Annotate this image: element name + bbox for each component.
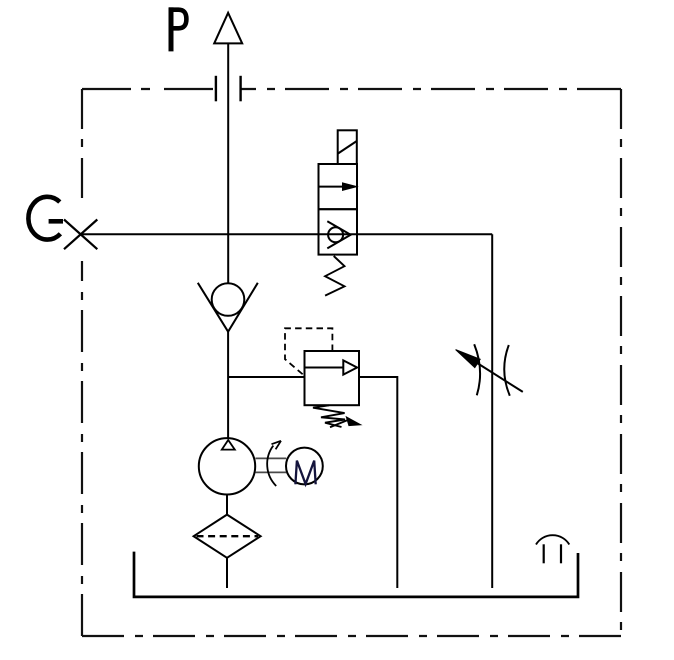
relief valve spring <box>313 405 345 427</box>
throttle valve arc right <box>504 345 510 396</box>
breather tick left <box>543 544 545 563</box>
relief valve flow arrow <box>305 360 358 374</box>
valve V1 position box 2 <box>319 209 358 254</box>
pump P1 <box>199 438 255 494</box>
relief valve adjustment arrow <box>330 417 361 427</box>
port pass-through tick right <box>239 76 241 102</box>
wire relief valve outlet <box>359 377 397 588</box>
enclosure border top-left segment <box>82 88 215 90</box>
enclosure border bottom <box>82 635 621 637</box>
relief valve RV1 body <box>305 351 360 405</box>
breather arc <box>536 535 569 544</box>
motor M1 circle <box>286 448 323 485</box>
drive shaft <box>255 458 286 472</box>
tank reservoir <box>134 552 578 597</box>
valve V1 position box 1 <box>319 164 358 209</box>
throttle adjustment arrow <box>456 350 523 392</box>
enclosure border left upper <box>81 89 83 208</box>
solenoid coil box <box>338 130 357 164</box>
filter element dashed line <box>197 535 259 537</box>
port label P <box>169 7 186 51</box>
port label G <box>28 197 63 240</box>
valve V1 flow arrow in box 1 <box>319 183 357 190</box>
solenoid diagonal slash <box>338 141 357 154</box>
wire pump to filter <box>226 495 228 515</box>
filter F1 diamond <box>194 515 261 558</box>
valve V1 check symbol in box 2 <box>327 221 350 248</box>
enclosure border left lower <box>81 261 83 636</box>
wire G line horizontal <box>81 233 493 235</box>
wire filter to tank <box>226 558 228 588</box>
plugged port X at G <box>64 220 97 250</box>
wire P line lower (check valve to pump) <box>227 332 229 439</box>
check valve CV1 <box>198 283 258 332</box>
port P arrow (open triangle) <box>214 13 242 44</box>
valve V1 return spring <box>325 256 344 296</box>
wire right vertical line to tank <box>491 234 493 588</box>
breather tick right <box>560 544 562 563</box>
wire P line upper (triangle to check valve) <box>227 43 229 283</box>
relief valve pilot dashed line <box>285 328 332 375</box>
enclosure border right <box>620 89 622 636</box>
motor letter M <box>295 461 315 485</box>
wire pump to relief valve <box>228 376 304 378</box>
pump outlet triangle <box>222 440 235 450</box>
rotation arrow <box>267 441 281 486</box>
port pass-through tick left <box>215 76 217 102</box>
enclosure border top-right segment <box>241 88 621 90</box>
throttle valve arc left <box>474 344 480 395</box>
